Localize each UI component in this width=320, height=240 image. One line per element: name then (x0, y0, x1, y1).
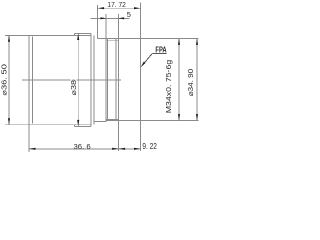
barrel bottom edge + ext (5, 124, 91, 126)
svg-text:17. 72: 17. 72 (107, 0, 126, 9)
svg-text:9. 22: 9. 22 (142, 142, 157, 151)
part end face + ext (118, 14, 120, 151)
thread runout (107, 38, 109, 120)
arrowheads (8, 7, 198, 150)
svg-text:M34x0. 75-6g: M34x0. 75-6g (164, 60, 173, 114)
front chamfer (32, 36, 34, 123)
svg-text:FPA: FPA (155, 46, 166, 55)
arrows D38 (77, 34, 79, 41)
dim line D34.90 (196, 38, 198, 120)
arrows 5 (outside pointing in) (101, 17, 107, 19)
thread start line (105, 14, 107, 122)
centerline (22, 79, 121, 81)
arrows M34 (178, 38, 180, 45)
dimension texts (0, 0, 195, 151)
flange bottom edge (75, 125, 92, 127)
end chamfer (115, 38, 117, 120)
dim line 5 (91, 17, 130, 19)
FPA plane (140, 3, 142, 152)
FPA leader (141, 53, 166, 66)
flange top edge (75, 33, 92, 35)
flange back chamfer (93, 35, 95, 124)
dim line 17.72 (98, 7, 141, 9)
svg-text:36. 6: 36. 6 (74, 142, 91, 151)
flange front step top (74, 34, 76, 36)
thread root top (106, 39, 118, 41)
thread root bottom (106, 118, 118, 120)
arrows D36.50 (8, 35, 10, 42)
arrows 36.6 (29, 148, 36, 150)
shank bottom line (94, 121, 107, 123)
flange front step bottom (74, 125, 76, 127)
FPA leader arrow (141, 62, 146, 67)
front face (28, 35, 30, 152)
barrel top edge + ext (5, 34, 91, 36)
flange back face (90, 34, 92, 127)
dim line D36.50 (8, 35, 10, 124)
svg-text:⌀34. 90: ⌀34. 90 (186, 69, 195, 97)
dim line M34 (178, 38, 180, 120)
ext 17.72 left (97, 5, 99, 38)
svg-text:⌀36. 50: ⌀36. 50 (0, 64, 8, 96)
svg-text:5: 5 (127, 10, 131, 19)
arrows 9.22 (119, 148, 126, 150)
thread OD top + ext (98, 37, 199, 39)
dim line bottom 36.6 / 9.22 (29, 148, 141, 150)
arrows D34.90 (196, 38, 198, 45)
thread OD bottom + ext (106, 119, 198, 121)
svg-text:⌀38: ⌀38 (69, 80, 78, 96)
arrows 17.72 (98, 7, 105, 9)
dim line D38 (77, 34, 79, 127)
